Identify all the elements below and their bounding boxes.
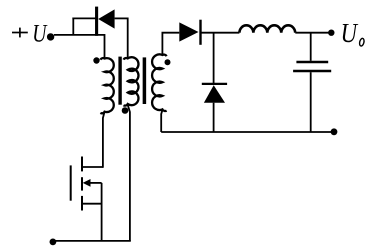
svg-text:U: U xyxy=(341,18,359,48)
svg-text:U: U xyxy=(32,21,48,48)
